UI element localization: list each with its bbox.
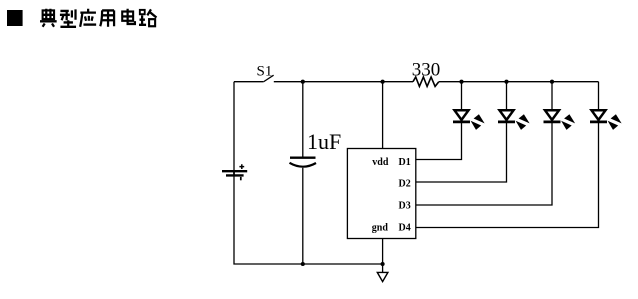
capacitor C1 [290,158,317,167]
wire: D3 pin to LED3 [416,123,552,205]
LED D3 [544,110,576,130]
wire: gnd pin to ground [382,239,384,273]
svg-text:S1: S1 [257,64,273,80]
svg-text:D1: D1 [399,157,411,168]
junction node LED3 (top) [550,80,554,84]
svg-text:330: 330 [412,59,441,80]
label 1uF (capacitor value) [307,129,341,154]
LED D1 [453,110,485,130]
wire: D2 pin to LED2 [416,123,507,182]
wire: top rail from switch to resistor [274,81,413,83]
wire: capacitor bottom lead to bottom rail [302,168,304,264]
char 电 [122,9,135,24]
wire: LED3 top lead [551,82,553,110]
ground [377,272,388,281]
pin label D2 [399,178,411,189]
char 用 [100,10,114,26]
LED D4 [590,110,622,130]
IC U1 (LED controller) [347,149,415,239]
svg-text:D4: D4 [399,223,411,234]
pin label D3 [399,200,411,211]
wire: bottom rail to gnd junction [303,263,383,265]
wire: battery to bottom rail [234,176,303,264]
junction node at vdd branch (top) [381,80,385,84]
char 应 [80,9,96,27]
char 路 [139,9,156,26]
wire: top rail left segment (battery to switch) [234,81,263,83]
label 330 (resistor value) [412,59,441,80]
LED D2 [498,110,530,130]
switch S1 [263,75,273,82]
svg-text:vdd: vdd [372,157,389,168]
junction node LED2 (top) [504,80,508,84]
wire: D1 pin to LED1 [416,123,462,160]
wire: D4 pin to LED4 [416,123,599,228]
char 典 [40,9,57,27]
wire: capacitor top lead [302,82,304,157]
svg-text:gnd: gnd [372,223,389,234]
wire: top rail from resistor to LED4 column [439,81,599,83]
svg-text:1uF: 1uF [307,129,341,154]
wire: LED4 top lead [598,82,600,110]
junction node at capacitor branch (top) [301,80,305,84]
char 型 [60,9,76,26]
title text 典型应用电路 (drawn as strokes) [40,9,156,27]
svg-text:D3: D3 [399,200,411,211]
junction node LED1 (top) [459,80,463,84]
pin label vdd [372,157,389,168]
svg-text:D2: D2 [399,178,411,189]
pin label D4 [399,223,411,234]
pin label D1 [399,157,411,168]
resistor 330 [413,77,439,86]
battery BT1 [222,164,247,180]
label S1 [257,64,273,80]
pin label gnd [372,223,389,234]
title bullet square [7,10,23,26]
wire: LED2 top lead [506,82,508,110]
wire: vdd branch vertical [382,82,384,149]
junction node gnd/bottom rail [381,262,385,266]
wire: LED1 top lead [461,82,463,110]
wire: left branch vertical (battery) [233,82,235,170]
junction node bottom (capacitor / battery rail) [301,262,305,266]
